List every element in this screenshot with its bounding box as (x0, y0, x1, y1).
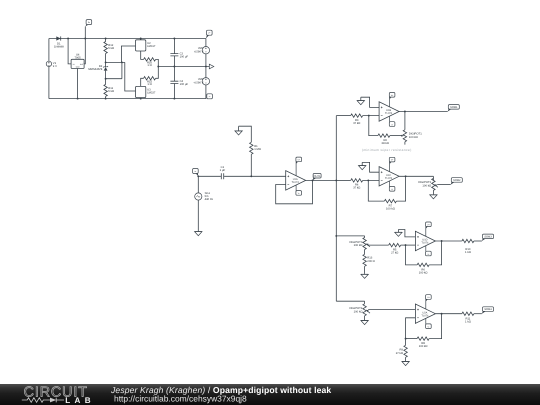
svg-text:1N4448: 1N4448 (54, 45, 64, 48)
svg-text:9v: 9v (88, 21, 90, 24)
svg-text:LM337: LM337 (147, 92, 156, 95)
svg-text:9 V: 9 V (53, 65, 57, 68)
svg-text:5 kΩ: 5 kΩ (108, 90, 114, 93)
svg-text:(minimum wiper resistance): (minimum wiper resistance) (362, 148, 412, 152)
svg-text:37 kΩ: 37 kΩ (353, 187, 360, 190)
svg-text:SOM2: SOM2 (453, 179, 461, 182)
svg-text:http://circuitlab.com/cehsyw37: http://circuitlab.com/cehsyw37x9qj8 (114, 394, 247, 404)
svg-text:5 kΩ: 5 kΩ (108, 47, 114, 50)
svg-text:TL074: TL074 (385, 177, 393, 180)
svg-text:100 kΩ: 100 kΩ (354, 311, 363, 314)
svg-text:TL074: TL074 (421, 242, 429, 245)
svg-text:4.590 V: 4.590 V (194, 50, 203, 53)
svg-text:1 kΩ: 1 kΩ (465, 320, 471, 323)
svg-text:1 kΩ: 1 kΩ (465, 251, 471, 254)
svg-text:1 Ω: 1 Ω (147, 64, 151, 67)
svg-text:LAB: LAB (65, 396, 95, 405)
svg-text:SOM1: SOM1 (450, 106, 458, 109)
svg-text:37 kΩ: 37 kΩ (353, 122, 360, 125)
svg-text:TL074: TL074 (421, 314, 429, 317)
svg-text:100 µF: 100 µF (180, 55, 189, 58)
svg-text:SOM3: SOM3 (484, 236, 492, 239)
svg-text:-4.590 V: -4.590 V (193, 82, 203, 85)
svg-text:68 kΩ: 68 kΩ (382, 142, 389, 145)
svg-text:100 kΩ: 100 kΩ (409, 136, 418, 139)
svg-text:1 Ω: 1 Ω (147, 83, 151, 86)
svg-text:1 µF: 1 µF (220, 169, 226, 172)
svg-text:100 kΩ: 100 kΩ (354, 244, 363, 247)
svg-text:100 kΩ: 100 kΩ (419, 272, 428, 275)
svg-text:1 MΩ: 1 MΩ (254, 148, 261, 151)
svg-text:100 kΩ: 100 kΩ (419, 345, 428, 348)
svg-text:27 kΩ: 27 kΩ (391, 251, 398, 254)
svg-text:27 kΩ: 27 kΩ (396, 352, 403, 355)
svg-text:SOM4: SOM4 (484, 308, 492, 311)
svg-text:OUT: OUT (80, 63, 84, 66)
svg-text:200 Ω: 200 Ω (367, 260, 374, 263)
svg-text:TL074: TL074 (292, 181, 300, 184)
svg-text:7905: 7905 (75, 57, 82, 60)
svg-text:100 kΩ: 100 kΩ (386, 207, 395, 210)
svg-text:100 kΩ: 100 kΩ (422, 184, 431, 187)
svg-text:in: in (195, 170, 196, 173)
svg-text:100 µF: 100 µF (180, 83, 189, 86)
svg-text:LM317: LM317 (147, 45, 156, 48)
svg-text:MMSZ4678: MMSZ4678 (88, 68, 102, 71)
svg-text:440 Hz: 440 Hz (205, 198, 214, 201)
svg-text:OUT1: OUT1 (314, 175, 321, 178)
svg-text:TL074: TL074 (385, 112, 393, 115)
